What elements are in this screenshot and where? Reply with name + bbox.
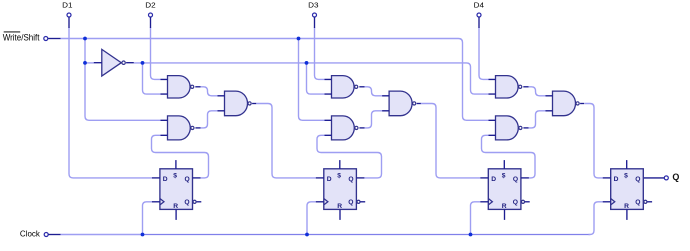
svg-text:Q: Q [635,176,640,183]
FF2 S set pin [339,160,341,169]
FF1 inverted Q output pin [197,201,202,203]
terminal output Q [664,176,668,180]
pin stub D3 [314,17,316,28]
pin stub D4 [478,17,480,28]
wire NAND U9 output to NAND U10 lower input [529,111,547,128]
NAND U3 output pin [195,127,200,129]
FF3 R reset pin [504,209,506,220]
NAND U4 (combiner, stage 1) [225,91,248,116]
svg-text:$: $ [624,173,628,180]
NAND U3 (shift gate, stage 1) [168,116,191,140]
terminal input D4 [477,13,481,17]
NAND U9 input pins [489,120,496,135]
wire FF3 Q feedback to NAND U9 lower input [482,135,536,178]
NAND U6 output pin [359,127,364,129]
NAND U8 input pins [489,79,496,94]
FF3 S set pin [503,160,505,169]
svg-text:Q: Q [348,176,353,183]
svg-text:$: $ [502,173,506,180]
svg-text:D3: D3 [308,0,318,9]
FF1 R reset pin [175,209,177,220]
svg-text:R: R [502,203,507,210]
svg-text:R: R [624,203,629,210]
junction inverted row stage1 tap [141,61,145,65]
wire FF2 Q feedback to NAND U6 lower input [317,135,382,178]
NAND U2 (write gate, stage 1) [168,76,191,98]
terminal input D2 [149,13,153,17]
D flip-flop FF2 [324,169,360,210]
wire clock bus main segment [143,234,590,236]
wire NAND U2 output to NAND U4 top input [201,87,218,96]
FF3 D input pin [480,177,488,179]
FF2 Q output pin [356,177,364,179]
NAND U10 input pins [546,96,553,111]
svg-text:Q: Q [672,172,679,182]
FF4 inverted Q output pin [647,201,652,203]
svg-text:$: $ [173,173,177,180]
wire NAND U7 output to FF3 D input [421,104,481,178]
wire NAND U10 output to FF4 D input [585,104,603,178]
FF4 D input pin [603,177,611,179]
wire NAND U5 output to NAND U7 top input [365,87,383,96]
NAND U8 (write gate, stage 3) [496,76,519,98]
wire clock bus left segment [61,234,143,236]
FF4 clock input pin [603,201,611,203]
NAND U5 (write gate, stage 2) [332,76,355,98]
overline over Write [4,31,21,32]
svg-text:Q: Q [185,176,190,183]
junction Write/Shift bus to stage2 tap [297,37,301,41]
terminal input D1 [67,13,71,17]
wire NAND U6 output to NAND U7 lower input [365,111,383,128]
junction clock bus to FF3 [469,233,473,237]
NAND U10 output pin [580,103,584,105]
FF3 clock input pin [480,201,488,203]
NAND U7 output pin [417,103,421,105]
wire clock bus end to FF4 clock [589,202,603,235]
wire inverter input tap [85,62,94,64]
D flip-flop FF1 [160,169,196,210]
terminal input D3 [313,13,317,17]
FF2 D input pin [316,177,324,179]
D flip-flop FF4 [611,169,647,210]
junction inverted row stage2 tap [305,61,309,65]
wire D1 column to FF1 D input [69,28,152,178]
svg-text:Q: Q [513,176,518,183]
wire D4 column to NAND U8 top input [479,28,489,80]
FF3 inverted Q output pin [525,201,530,203]
svg-text:Clock: Clock [20,230,41,239]
svg-text:Q: Q [513,199,518,206]
wire D3 column to NAND U5 top input [315,28,325,80]
terminal input Write/Shift [44,37,48,41]
NAND U2 input pins [161,79,168,94]
svg-text:D2: D2 [145,0,155,9]
NAND U5 input pins [325,79,332,94]
wire clock riser to FF3 [471,202,481,235]
svg-text:D: D [614,176,619,183]
NAND U3 input pins [161,120,168,135]
svg-text:D1: D1 [62,0,72,9]
wire stage2 inverted tap to NAND U5 lower input [307,63,325,94]
FF1 S set pin [175,160,177,169]
svg-text:Write/Shift: Write/Shift [3,33,40,43]
wire clock riser to FF2 [307,202,316,235]
svg-text:Q: Q [348,199,353,206]
svg-text:D: D [327,176,332,183]
wire Write/Shift bus (row 1) [61,39,489,121]
wire inverted Write/Shift row (row 2) [134,63,489,94]
pin stub D1 [68,17,70,28]
NAND U10 (combiner, stage 3) [553,91,576,116]
FF1 D input pin [152,177,160,179]
NAND U9 (shift gate, stage 3) [496,116,519,140]
wire FF1 Q feedback to NAND U3 lower input [152,135,209,178]
inverter U1 [102,49,126,76]
NAND U7 input pins [382,96,389,111]
FF1 clock input pin [152,201,160,203]
FF2 inverted Q output pin [361,201,366,203]
svg-text:Q: Q [635,199,640,206]
svg-text:D: D [163,176,168,183]
junction clock bus to FF1 [141,233,145,237]
NAND U4 input pins [218,96,225,111]
NAND U4 output pin [252,103,256,105]
FF4 R reset pin [626,209,628,220]
pin stub D2 [150,17,152,28]
svg-text:D4: D4 [474,0,484,9]
NAND U6 input pins [325,120,332,135]
NAND U9 output pin [523,127,528,129]
NAND U6 (shift gate, stage 2) [332,116,355,140]
wire NAND U3 output to NAND U4 lower input [201,111,218,128]
wire stage1 Write tap to NAND U3 top input [85,39,161,121]
inverter U1 output pin [126,62,134,64]
terminal input Clock [44,233,48,237]
NAND U2 output pin [195,86,200,88]
svg-text:R: R [337,203,342,210]
FF4 S set pin [626,160,628,169]
NAND U5 output pin [359,86,364,88]
pin stub Q (FF4 Q to terminal) [643,177,664,179]
FF2 clock input pin [316,201,324,203]
svg-text:R: R [173,203,178,210]
wire clock riser to FF1 [143,202,152,235]
pin stub Write/Shift [48,38,60,40]
wire stage2 Write tap to NAND U6 top input [299,39,325,121]
wire stage1 inverted tap to NAND U2 lower input [143,63,161,94]
svg-text:$: $ [337,173,341,180]
FF1 Q output pin [193,177,201,179]
FF3 Q output pin [521,177,529,179]
inverter U1 input pin [94,62,102,64]
wire D2 column to NAND U2 top input [151,28,161,80]
NAND U8 output pin [523,86,528,88]
wire NAND U8 output to NAND U10 top input [529,87,547,96]
junction inverter input tap [83,61,87,65]
junction clock bus to FF2 [305,233,309,237]
wire NAND U4 output to FF2 D input [256,104,316,178]
svg-text:Q: Q [184,199,189,206]
D flip-flop FF3 [488,169,524,210]
NAND U7 (combiner, stage 2) [389,91,412,116]
pin stub Clock [49,234,61,236]
junction Write/Shift bus to stage1 tap [83,37,87,41]
svg-text:D: D [491,176,496,183]
FF2 R reset pin [339,209,341,220]
